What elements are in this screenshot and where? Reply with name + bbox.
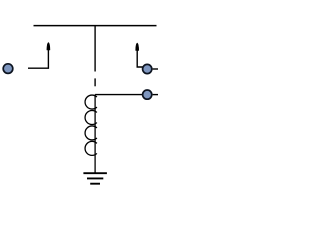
current arrow upper right (136, 43, 144, 67)
wire stub upper right (153, 68, 158, 70)
node terminal upper right (143, 64, 152, 73)
node terminal lower right (143, 90, 152, 99)
wire coil to lower-right node (95, 94, 142, 96)
wire vertical from top rail (94, 26, 96, 72)
wire dashed segment (94, 78, 96, 86)
node terminal left (3, 64, 13, 74)
ground (83, 172, 107, 184)
inductor L1 (85, 95, 97, 173)
wire stub lower right (153, 94, 158, 96)
wire top rail (34, 25, 157, 27)
current arrow left (28, 43, 50, 69)
